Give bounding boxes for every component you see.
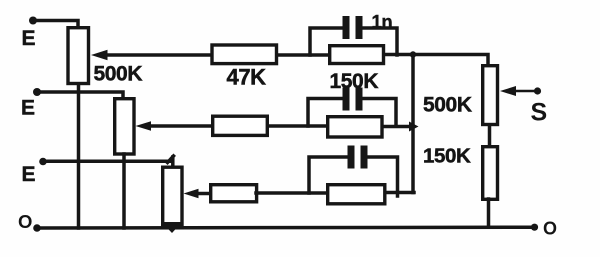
wire P1 bottom to O line bbox=[77, 84, 81, 228]
wire R7 bottom to O line bbox=[487, 199, 491, 227]
wire RC1 left branch bbox=[310, 28, 343, 55]
wire R3 to RC network 3 bbox=[256, 191, 328, 195]
potentiometer P1 500K body bbox=[68, 28, 89, 84]
capacitor C3 plate right bbox=[361, 146, 368, 169]
resistor R3 body bbox=[211, 185, 257, 202]
resistor R2 body bbox=[213, 116, 268, 135]
wire stub into P3 top bbox=[171, 157, 175, 167]
svg-text:500K: 500K bbox=[94, 63, 143, 86]
wire RC2 left branch bbox=[308, 99, 343, 127]
svg-text:S: S bbox=[531, 99, 547, 127]
wire RC2 right branch bbox=[362, 99, 396, 127]
wire O ground line bbox=[37, 225, 535, 229]
potentiometer P3 500K body bbox=[163, 167, 182, 225]
svg-text:O: O bbox=[18, 211, 32, 232]
svg-text:O: O bbox=[543, 219, 557, 239]
wire E3 corner tick bbox=[168, 156, 174, 163]
wire E3 to pot P3 top bbox=[43, 160, 170, 164]
wire P2 bottom to O line bbox=[122, 154, 126, 228]
wire channel1 output to P4 top bbox=[385, 55, 488, 66]
P2 wiper arrow bbox=[136, 121, 152, 131]
capacitor C2 plate left bbox=[343, 88, 350, 111]
wire RC3 right branch bbox=[367, 157, 398, 196]
wire E1 to pot P1 top bbox=[33, 21, 78, 27]
node O left terminal dot bbox=[33, 224, 41, 232]
wire P4 bottom to R7 bbox=[488, 125, 492, 147]
svg-text:150K: 150K bbox=[330, 70, 379, 93]
svg-text:E: E bbox=[22, 163, 36, 186]
svg-text:500K: 500K bbox=[423, 94, 472, 117]
resistor R5 150K body bbox=[328, 117, 382, 137]
resistor R1 47K body bbox=[212, 45, 277, 64]
P1 wiper arrow bbox=[91, 50, 108, 60]
wire P2 wiper to R2 bbox=[148, 124, 212, 128]
junction P3 bottom on O line bbox=[162, 222, 183, 233]
resistor R7 150K body bbox=[483, 147, 498, 200]
potentiometer P2 500K body bbox=[115, 99, 134, 154]
svg-text:E: E bbox=[22, 27, 36, 50]
wire P1 wiper to R1 bbox=[104, 53, 211, 57]
wire P3 wiper to R3 bbox=[196, 192, 211, 196]
svg-text:150K: 150K bbox=[423, 145, 471, 168]
wire E2 to pot P2 top bbox=[37, 92, 123, 98]
wire R1 to RC network 1 bbox=[278, 53, 330, 57]
capacitor C2 plate right bbox=[356, 88, 363, 111]
P3 wiper arrow bbox=[184, 189, 199, 198]
capacitor C3 plate left bbox=[348, 146, 355, 169]
capacitor C1 plate right bbox=[356, 16, 363, 39]
node O right terminal dot bbox=[531, 224, 538, 231]
node S terminal dot bbox=[534, 87, 541, 94]
resistor R6 150K body bbox=[328, 185, 385, 204]
resistor R4 150K body bbox=[330, 46, 384, 64]
svg-text:47K: 47K bbox=[227, 65, 267, 90]
potentiometer P4 500K body bbox=[483, 66, 498, 125]
wire channel2 output to bus bbox=[384, 125, 413, 129]
wire RC1 right branch bbox=[362, 28, 397, 55]
svg-text:E: E bbox=[21, 97, 35, 120]
node E1 terminal dot bbox=[29, 17, 37, 25]
wire channel3 output to bus bbox=[386, 191, 414, 195]
wire R2 to RC network 2 bbox=[268, 124, 328, 128]
wire P4 wiper to S terminal bbox=[512, 90, 535, 93]
P4 wiper arrow bbox=[500, 86, 516, 96]
node E3 terminal dot bbox=[39, 158, 47, 166]
wire summing bus vertical bbox=[411, 55, 415, 193]
wire RC3 left branch bbox=[309, 157, 348, 193]
junction channel1/bus bbox=[410, 51, 416, 57]
capacitor C1 plate left bbox=[343, 16, 350, 39]
junction channel2/bus bbox=[409, 122, 419, 132]
node E2 terminal dot bbox=[33, 88, 41, 96]
